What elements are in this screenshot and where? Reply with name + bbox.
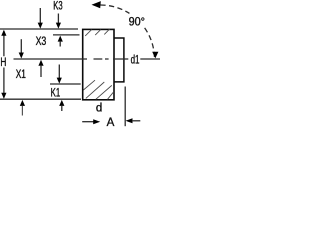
dimension X3: lower arrow (up at centerline): [38, 60, 43, 66]
svg-text:A: A: [107, 117, 115, 129]
extension line B (insertion stop plane, top): [53, 34, 80, 36]
dimension A: left arrow (points right at body axis): [82, 121, 93, 123]
90 degree arc (dashed): [101, 5, 155, 59]
extension line E (insertion stop plane, bottom): [50, 83, 81, 85]
svg-text:d1: d1: [131, 54, 140, 66]
dimension H: top arrow (up at line A): [1, 30, 6, 36]
white mask for 90° label: [129, 13, 146, 26]
svg-text:X3: X3: [36, 36, 47, 48]
hatch strokes bottom: [83, 80, 113, 99]
technical dimension sketch: 90-degree branch fitting with dims H, X1, K1, X3, K3, d, d1, A: [0, 0, 160, 131]
svg-text:H: H: [0, 57, 6, 69]
dimension H: bottom arrow (down at line C): [1, 93, 6, 99]
body rectangle: [83, 29, 114, 99]
white mask for d1 label: [130, 54, 140, 65]
arc arrowhead top (points left): [92, 1, 101, 8]
dimension X3: upper arrow (down at line A): [39, 8, 41, 23]
dimension K1: upper arrow (down at line E): [58, 65, 60, 79]
extension line A (top pipe-end plane): [0, 28, 78, 30]
centerline of side outlet (line G + d1 leader): [14, 58, 161, 60]
hatch strokes top: [85, 29, 109, 36]
svg-text:K1: K1: [51, 88, 61, 100]
arc arrowhead bottom (points down): [152, 52, 158, 59]
dimension X1: upper arrow (down at centerline): [20, 39, 22, 53]
dimension K1: lower arrow (up at line C): [59, 100, 64, 106]
dimension H: stem: [3, 31, 5, 98]
svg-text:90°: 90°: [129, 16, 145, 28]
dimension X1: lower arrow (up at line C): [20, 100, 25, 106]
dimension K3: lower arrow (up at line B): [58, 36, 63, 42]
extension line from spigot end face: [124, 87, 126, 127]
extension line C (bottom pipe-end plane): [0, 98, 81, 100]
svg-text:K3: K3: [53, 1, 62, 13]
dimension K3: upper arrow (down at line A): [57, 14, 59, 24]
dimension A: right arrow (points left at extension line): [126, 118, 133, 123]
svg-text:X1: X1: [16, 69, 26, 81]
side spigot outline: [114, 38, 124, 82]
svg-text:d: d: [96, 102, 102, 114]
